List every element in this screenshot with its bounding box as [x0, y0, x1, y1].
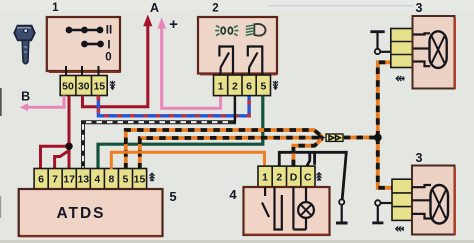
ignition switch 1 box: [47, 17, 121, 73]
ignition connector 50 30 15: [60, 76, 107, 96]
svg-text:4: 4: [94, 174, 100, 186]
svg-text:1: 1: [52, 2, 59, 14]
headlamp 3 bottom bulb: [412, 185, 448, 224]
svg-text:2: 2: [232, 81, 238, 93]
svg-text:1: 1: [218, 81, 224, 93]
svg-text:17: 17: [63, 174, 75, 186]
svg-text:1: 1: [262, 172, 268, 184]
svg-text:2: 2: [212, 3, 218, 15]
wire pink + to light switch 1: [157, 17, 220, 108]
box4 connector 1 2 D C: [258, 166, 315, 187]
harness symbol down (ignition): [110, 81, 115, 90]
svg-text:B: B: [21, 90, 30, 104]
svg-text:5: 5: [260, 81, 266, 93]
svg-text:3: 3: [416, 1, 423, 15]
headlamp 3 top connector: [391, 29, 413, 68]
wire orange/black junction up to headlamp top: [378, 62, 391, 137]
svg-text:A: A: [150, 1, 159, 15]
junction node (dashed wires): [374, 134, 382, 142]
box4 switch: [262, 187, 282, 230]
headlamp 3 top box: [413, 16, 457, 89]
svg-text:5: 5: [122, 174, 128, 186]
svg-text:5: 5: [169, 189, 176, 204]
svg-text:6: 6: [38, 174, 44, 186]
headlamp 3 bottom box: [412, 166, 456, 236]
svg-text:30: 30: [78, 81, 90, 93]
wire white/black to ATDS 13: [83, 122, 236, 169]
ATDS connector 6 7 17 13 4 8 5 15: [34, 169, 147, 190]
wire red 50 to junction and ATDS 6/7/17: [41, 96, 70, 170]
ignition contacts row II: [66, 27, 103, 33]
svg-text:ATDS: ATDS: [56, 205, 105, 222]
svg-text:2: 2: [276, 172, 282, 184]
harness symbol left (headlamp bottom): [396, 226, 405, 231]
svg-text:0: 0: [105, 52, 111, 64]
wire black box4-2 over to probe: [279, 152, 346, 199]
svg-text:C: C: [304, 172, 312, 184]
wire orange/black box4-D to fuse inlet: [293, 138, 322, 166]
headlamp 3 top: T probe: [370, 32, 391, 55]
svg-text:15: 15: [93, 81, 105, 93]
headlight icon: [246, 24, 266, 36]
wire black short stub by C: [313, 152, 316, 165]
wire orange/black ATDS 5 to fuse: [126, 130, 323, 170]
svg-text:50: 50: [62, 81, 74, 93]
ATDS block 5: [19, 189, 163, 237]
switch contact S2b: [248, 47, 262, 76]
harness symbol up (ATDS): [150, 173, 155, 182]
parking lights icon: [215, 26, 238, 36]
harness symbol up (box4): [317, 172, 322, 181]
wire orange/black junction down to headlamp bottom: [378, 138, 392, 188]
box4 indicator lamp: [293, 187, 314, 230]
svg-text:8: 8: [108, 174, 114, 186]
probe circle and bar (box4 wire end): [336, 199, 348, 223]
junction node (red wires): [65, 143, 72, 150]
wire orange ATDS 8 to box4 terminal 1: [111, 152, 264, 169]
svg-text:+: +: [169, 16, 178, 33]
switch contact S2a: [219, 47, 233, 76]
wire black drop from switch2 terminal 2: [234, 96, 237, 123]
wire red 30 to A: [83, 15, 153, 107]
harness symbol left (headlamp top): [396, 76, 405, 81]
headlamp 3 bottom connector: [392, 179, 414, 220]
ignition contacts row I: [82, 41, 104, 47]
headlamp 3 bottom: probe circle and bar: [372, 200, 392, 223]
svg-text:6: 6: [246, 81, 252, 93]
ignition pins: [66, 66, 99, 76]
wire pink B (terminal 50 to B): [20, 96, 64, 112]
wire orange/black ATDS 15 to fuse: [140, 138, 323, 170]
position labels II I 0: [105, 25, 112, 64]
red dash on blue wire near terminal 15: [97, 96, 100, 101]
fuse F: [318, 134, 343, 142]
wire blue/red 15 to light switch 6: [98, 96, 249, 116]
key icon: [14, 26, 34, 64]
svg-text:13: 13: [77, 174, 89, 186]
harness symbol down (light switch): [273, 81, 278, 90]
wire green switch2-5 to ATDS 4: [98, 96, 263, 170]
svg-text:I: I: [107, 40, 110, 52]
svg-text:4: 4: [229, 187, 237, 202]
svg-text:D: D: [290, 172, 298, 184]
light switch connector 1 2 6 5: [214, 75, 271, 96]
svg-text:3: 3: [416, 151, 423, 165]
light switch S2 box: [198, 17, 277, 75]
headlamp 3 top bulb: [414, 31, 447, 68]
wire orange/black fuse to junction: [344, 136, 378, 140]
wire black branch into box4 C: [307, 152, 310, 166]
svg-text:7: 7: [52, 174, 58, 186]
svg-text:II: II: [106, 25, 112, 37]
svg-text:15: 15: [134, 174, 146, 186]
box4 body: [244, 187, 330, 235]
